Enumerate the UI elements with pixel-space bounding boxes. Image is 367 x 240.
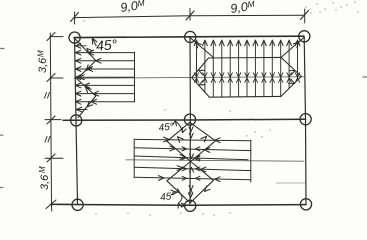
column B1: [71, 115, 82, 126]
left dim tick row C: [46, 200, 70, 209]
column line middle: [189, 37, 191, 205]
label 45 deg diamond bottom: [160, 191, 176, 204]
top dim tick left: [71, 12, 79, 24]
right block up arrows at top beam: [194, 40, 300, 46]
svg-text:9,0: 9,0: [119, 0, 138, 15]
column A3: [299, 31, 310, 42]
top dim tick middle: [186, 9, 194, 21]
ditto mark upper: [45, 93, 50, 99]
column C1: [72, 199, 83, 210]
label 45 deg diamond top: [158, 121, 174, 134]
left dim tick row mid2: [45, 154, 63, 162]
column C3: [300, 199, 311, 210]
zigzag arrowhead 2: [86, 65, 92, 71]
bottom block inner converging arrows: [182, 147, 200, 180]
hexagon left vertex arrowheads: [199, 70, 205, 85]
left block 45-deg zigzag boundary: [75, 39, 96, 118]
column B3: [300, 114, 311, 125]
column A2: [185, 31, 196, 42]
left dim tick row mid1: [47, 74, 63, 82]
column line right: [304, 37, 306, 204]
left block extra short arrow bottom: [76, 107, 87, 112]
label 45 deg top-left: [95, 36, 118, 54]
bottom block horizontal load lines: [134, 139, 251, 179]
left dim tick row B: [45, 116, 61, 124]
zigzag arrowhead 4: [87, 101, 93, 107]
scan edge dashes: [0, 49, 367, 188]
scan specks: [83, 1, 358, 215]
left block extra short arrow top: [75, 43, 86, 48]
hexagon bottom-right edge: [281, 76, 301, 96]
bottom block left edge: [133, 139, 135, 178]
upper diamond: [167, 122, 216, 161]
bottom beam line: [52, 203, 306, 206]
svg-text:45°: 45°: [95, 36, 118, 54]
lower diamond: [167, 162, 214, 203]
corner diagonal from column A2: [191, 38, 214, 58]
lower diamond edge arrowheads: [171, 186, 210, 195]
svg-text:9,0: 9,0: [229, 0, 248, 16]
top dimension line 9.0M + 9.0M: [74, 15, 305, 17]
column C2: [185, 200, 196, 211]
hexagon top edge: [209, 56, 282, 59]
svg-text:3,6: 3,6: [37, 57, 49, 73]
svg-text:M: M: [37, 50, 46, 57]
hexagon bottom edge: [210, 95, 282, 98]
zigzag arrowhead 3: [86, 87, 92, 93]
svg-text:45°: 45°: [160, 191, 176, 204]
annotation arc diamond bottom: [175, 189, 182, 209]
bottom block vertical arrows on centre line: [181, 127, 193, 207]
column line left: [75, 38, 78, 204]
left block load arrows at column line: [75, 50, 81, 104]
zigzag arrowhead 1: [87, 49, 93, 55]
left block second arrowheads on 45 boundary: [79, 50, 101, 104]
annotation arc diamond top: [173, 121, 187, 133]
top beam line: [74, 36, 304, 37]
left dim tick row A: [47, 33, 63, 41]
mid-bay line lower (y=160): [126, 160, 304, 161]
top dim tick right: [301, 9, 309, 23]
left block right edge: [134, 52, 136, 102]
svg-text:M: M: [38, 166, 47, 173]
svg-text:45°: 45°: [158, 121, 174, 134]
left block horizontal load lines: [76, 53, 135, 102]
bottom block right-pointing arrows on left side: [159, 137, 186, 180]
corner diagonal from column A3: [282, 38, 304, 58]
middle beam line: [63, 119, 306, 120]
annotation arrow 45 top-left: [92, 38, 97, 46]
left dimension line 3.6M x4: [50, 33, 51, 211]
hexagon bottom-left edge: [192, 78, 210, 98]
label 9.0M left: [119, 0, 146, 15]
column A1: [69, 32, 80, 43]
label 9.0M right: [229, 0, 256, 16]
right block vertical load lines: [197, 41, 298, 97]
hexagon top-left edge: [192, 58, 209, 78]
upper diamond edge arrowheads: [178, 136, 207, 142]
hexagon top-right edge: [281, 57, 301, 76]
label 3.6M upper: [37, 50, 50, 73]
bottom block left-pointing arrows on right side: [194, 138, 220, 182]
label 3.6M bottom: [38, 166, 51, 190]
hexagon right vertex arrowheads: [289, 71, 295, 84]
column B2: [184, 114, 195, 125]
svg-text:3,6: 3,6: [39, 174, 51, 190]
bottom block right edge: [250, 140, 252, 182]
mid-bay line upper (y=77): [74, 77, 305, 79]
right block double arrowheads on mid line: [194, 73, 299, 83]
ditto mark lower: [45, 137, 50, 143]
